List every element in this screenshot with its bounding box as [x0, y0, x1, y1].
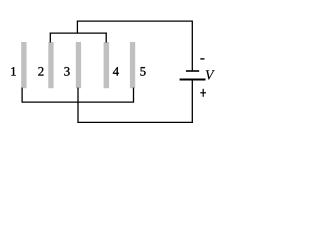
wire: plate 1 bottom stub [21, 88, 23, 103]
wire: bottom horizontal joining plates 1,3,5 [22, 101, 135, 103]
battery V negative plate (short) [186, 70, 199, 72]
label 4 [113, 67, 119, 75]
label 1 [11, 67, 16, 75]
label plus sign [200, 89, 206, 97]
wire: lower horizontal rail to battery positive [77, 121, 192, 123]
wire: bracket horizontal over plates 2 and 4 [50, 32, 107, 34]
wire: battery bottom vertical [191, 80, 193, 123]
battery V positive plate (long) [180, 79, 206, 81]
label 2 [38, 67, 43, 75]
wire: battery top vertical [191, 21, 193, 70]
wire: top horizontal from bracket to battery [77, 20, 192, 22]
label 3 [64, 67, 69, 76]
capacitor plate 1 [21, 42, 26, 88]
capacitor plate 3 [76, 42, 81, 88]
capacitor plate 5 [130, 42, 135, 88]
wire: plate 3 bottom vertical to lower rail [77, 88, 79, 123]
label V (battery voltage) [206, 70, 215, 79]
label minus sign [200, 58, 204, 60]
wire: plate 5 bottom stub [133, 88, 135, 103]
wire: stub down to plate 2 top [49, 33, 51, 43]
wire: bracket mid vertical [76, 21, 78, 34]
capacitor plate 4 [104, 42, 110, 88]
label 5 [140, 67, 145, 76]
wire: stub down to plate 4 top [105, 33, 107, 43]
capacitor plate 2 [48, 42, 53, 88]
